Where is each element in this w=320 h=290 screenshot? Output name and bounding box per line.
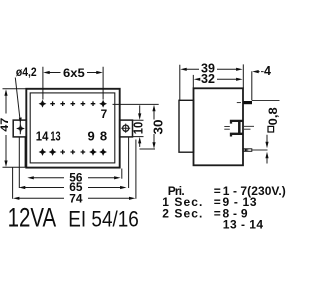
- dimension 56: extension line right: [121, 169, 123, 179]
- bottom pin row: pin 13 (star): [49, 148, 57, 156]
- side view: bottom pin: [243, 149, 252, 152]
- right mounting hole (crosshair): [123, 125, 129, 131]
- dimension 47: dimension line with arrows: [5, 94, 7, 162]
- top pin row: pin 7 (star): [99, 100, 107, 108]
- side view: middle bent pins (comb): [231, 121, 243, 124]
- ear top/bottom extension lines: [133, 120, 144, 136]
- dimension 39: line with arrows: [185, 68, 238, 70]
- svg-text:14: 14: [36, 128, 49, 143]
- svg-text:0,8: 0,8: [266, 107, 280, 125]
- bottom pin row: pin 14 (star): [39, 148, 47, 156]
- svg-text:12VA: 12VA: [8, 202, 57, 232]
- dimension square 0,8: label (rotated): [266, 107, 280, 132]
- dimension 56: line with arrows: [33, 177, 116, 179]
- svg-text:13: 13: [50, 128, 60, 143]
- svg-text:47: 47: [0, 118, 11, 132]
- svg-text:8: 8: [100, 128, 107, 143]
- dimension 47: extension lines: [3, 89, 27, 168]
- left mounting ear: [13, 120, 26, 137]
- svg-text:EI 54/16: EI 54/16: [68, 206, 139, 231]
- dimension 74: line with arrows: [18, 197, 130, 199]
- dimension 65: line with arrows: [24, 187, 122, 189]
- dimension 6x5: dimension line with arrows: [49, 72, 99, 74]
- svg-text:2 Sec.: 2 Sec.: [162, 206, 202, 220]
- top pin leader line: [252, 99, 280, 101]
- right mounting ear: [120, 120, 133, 137]
- top pin row: pin 1 (star): [39, 100, 47, 108]
- dimension 32: extension line: [192, 75, 194, 88]
- outline step below left ear: [24, 137, 26, 167]
- svg-text:74: 74: [69, 191, 83, 205]
- side view: body: [194, 88, 244, 165]
- dimension 10: label: [134, 122, 143, 136]
- dimension 4: extension line down to pin: [251, 71, 253, 100]
- legend text block: [162, 184, 285, 232]
- dimension 65: extension lines: [19, 137, 128, 188]
- comb centerline dashes: [224, 126, 254, 129]
- top pin row: pins 2-6 (plus): [50, 101, 55, 106]
- svg-text:10: 10: [132, 122, 146, 135]
- bottom pin row: pin 9 (star): [89, 148, 97, 156]
- svg-text:7: 7: [101, 107, 108, 121]
- svg-text:32: 32: [201, 72, 215, 86]
- side view: top pin: [243, 101, 252, 104]
- svg-text:6x5: 6x5: [63, 66, 85, 80]
- svg-text:30: 30: [151, 119, 165, 134]
- svg-text:=: =: [214, 206, 221, 220]
- transformer top view: inner bobbin outline: [30, 93, 115, 163]
- bottom pin row: pins 12-10 (plus): [60, 150, 65, 155]
- svg-text:9: 9: [88, 128, 95, 143]
- svg-text:ø4,2: ø4,2: [16, 67, 37, 79]
- dimension 0,8: arrows: [266, 135, 268, 164]
- dimension 10: arrows outside ear: [139, 105, 141, 146]
- bottom extension line for 30: [140, 148, 156, 150]
- dimension 30: label: [153, 120, 162, 135]
- transformer top view: outer core outline: [26, 89, 119, 168]
- svg-text:4: 4: [264, 64, 271, 78]
- dimension phi 4,2: leader line to hole: [15, 78, 20, 135]
- left mounting hole (star): [16, 124, 25, 133]
- svg-text:13 - 14: 13 - 14: [223, 218, 264, 232]
- bottom pin leader to 0,8 dim: [252, 149, 268, 151]
- pin7 extension line to right dims: [113, 103, 159, 105]
- dimension 74: extension lines: [13, 140, 136, 199]
- dimension 32: line with arrows: [199, 78, 239, 80]
- side view: mounting flange plate: [179, 100, 194, 152]
- bottom pin row: pin 8 (star): [99, 148, 107, 156]
- dimension 39: extension lines: [180, 64, 244, 100]
- dimension 4: arrow and dash: [257, 71, 264, 73]
- dimension 30: dimension line with arrows: [153, 109, 155, 147]
- dimension 6x5: extension lines: [43, 67, 103, 100]
